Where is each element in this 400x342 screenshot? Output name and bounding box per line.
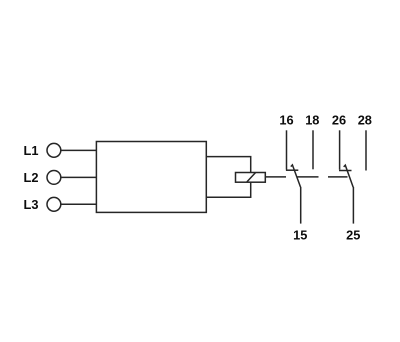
pin 18 lead	[312, 130, 314, 169]
svg-text:15: 15	[293, 227, 307, 242]
contact seat 26	[339, 170, 352, 172]
svg-text:L3: L3	[24, 197, 39, 212]
pin 28 lead	[365, 130, 367, 170]
pin 16 lead	[286, 130, 288, 169]
pin 25 lead	[352, 187, 354, 224]
terminal circle L1	[47, 143, 61, 157]
svg-text:28: 28	[358, 112, 372, 127]
terminal circle L3	[47, 197, 61, 211]
relay coil K1	[236, 173, 266, 183]
wire bottom output	[206, 182, 250, 197]
svg-text:25: 25	[346, 227, 360, 242]
measuring block U1	[96, 142, 206, 213]
svg-text:26: 26	[332, 112, 346, 127]
wire L2	[61, 176, 97, 178]
svg-text:16: 16	[279, 112, 293, 127]
contact arm 25	[344, 165, 354, 187]
svg-text:L1: L1	[24, 143, 39, 158]
terminal circle L2	[47, 171, 61, 185]
wire L1	[61, 149, 97, 151]
contact seat 16	[286, 169, 298, 171]
svg-text:18: 18	[305, 112, 319, 127]
wire top output	[206, 157, 250, 173]
mechanical linkage (dashed)	[266, 176, 348, 178]
contact arm 15	[291, 165, 301, 187]
wire L3	[61, 203, 97, 205]
pin 26 lead	[339, 130, 341, 169]
pin 15 lead	[300, 187, 302, 224]
svg-text:L2: L2	[24, 170, 39, 185]
